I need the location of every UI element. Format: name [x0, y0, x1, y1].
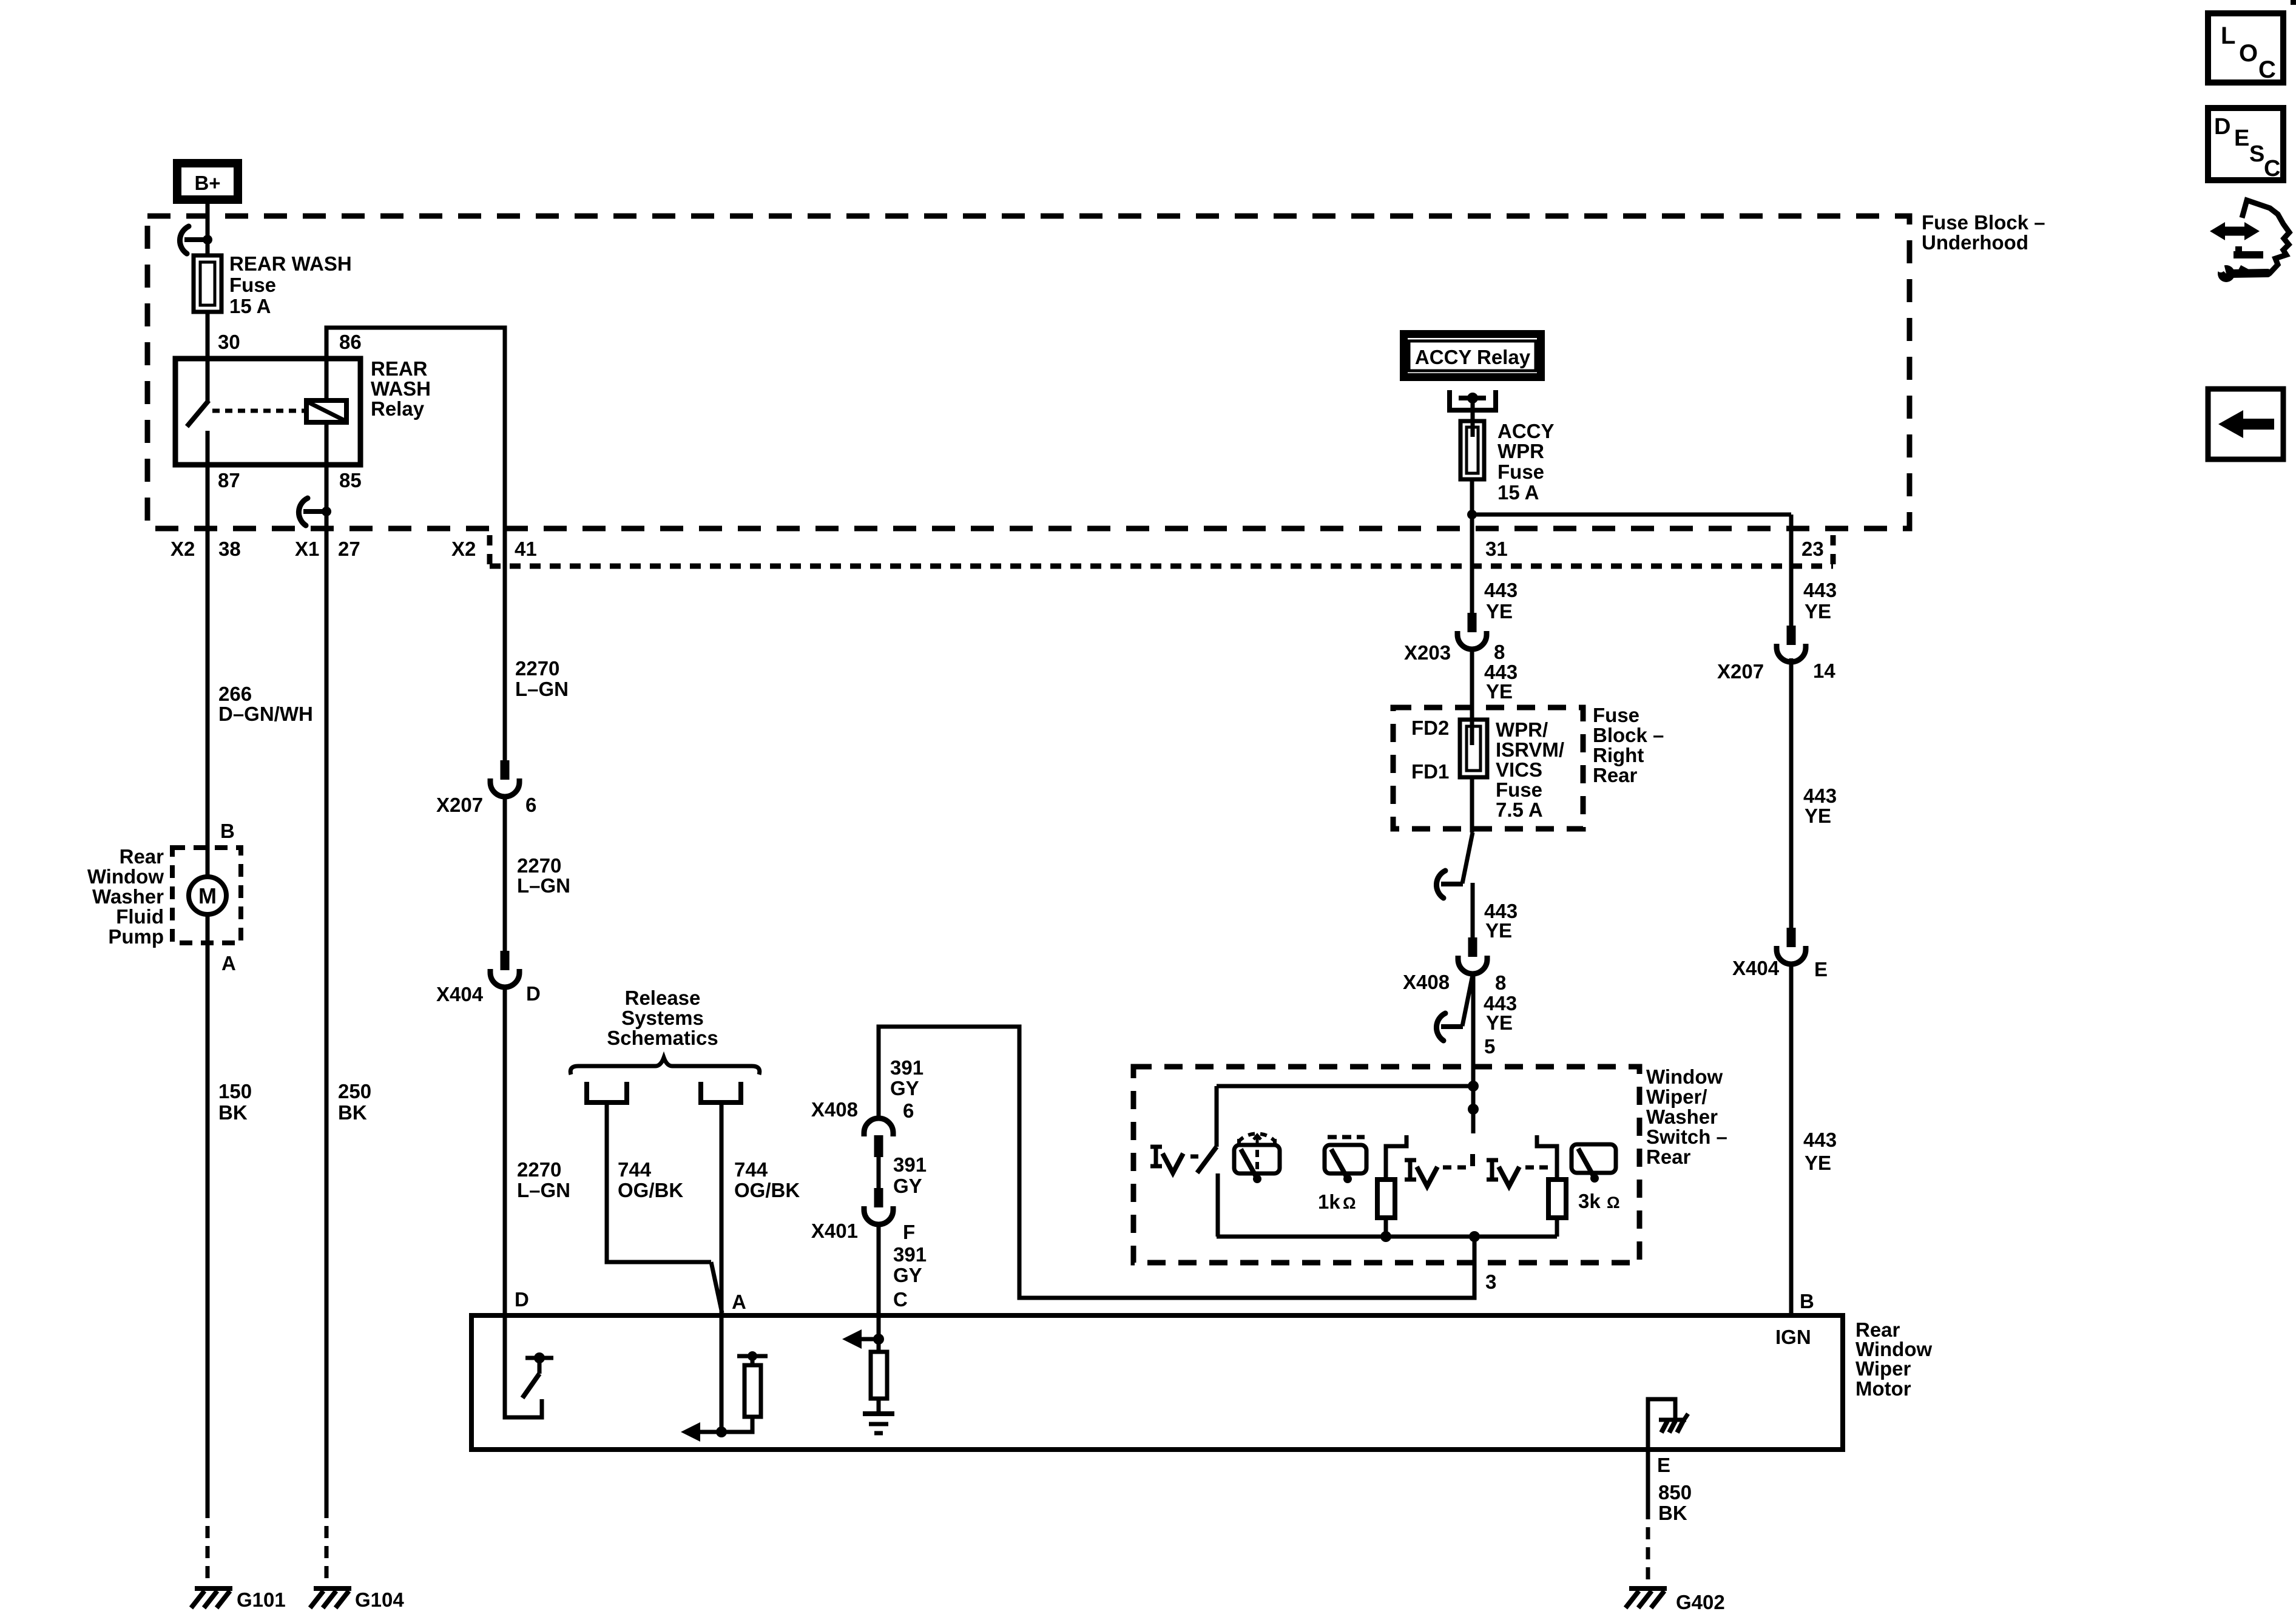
relay fixed contact to pin 87	[206, 431, 210, 465]
svg-text:2270: 2270	[515, 657, 559, 680]
svg-text:Wiper: Wiper	[1855, 1357, 1911, 1380]
svg-text:B: B	[1800, 1290, 1814, 1312]
washer icon intermittent	[1325, 1145, 1366, 1173]
spray dome dashes	[1238, 1133, 1275, 1142]
svg-text:D: D	[515, 1288, 529, 1311]
wire junction to right branch	[1472, 513, 1791, 517]
ground G101	[195, 1586, 232, 1591]
washer icon with spray dome	[1234, 1145, 1280, 1173]
switch bottom rail	[1217, 1235, 1557, 1239]
motor internal chassis ground	[1659, 1418, 1686, 1422]
motor winding A lead	[720, 1315, 724, 1432]
power terminal B+ box	[173, 159, 242, 204]
off switch fixed contact	[1216, 1173, 1220, 1237]
svg-text:6: 6	[525, 794, 536, 816]
switch common stub	[1471, 1086, 1476, 1133]
svg-text:Fuse: Fuse	[229, 274, 276, 296]
svg-text:X404: X404	[436, 983, 484, 1005]
svg-text:Schematics: Schematics	[607, 1027, 718, 1049]
clip below FD1	[1462, 832, 1473, 883]
dash to off blade	[1190, 1155, 1198, 1159]
wire B+ down to fuse	[206, 204, 210, 255]
svg-text:GY: GY	[890, 1077, 919, 1099]
svg-text:443: 443	[1803, 1129, 1837, 1151]
svg-text:850: 850	[1658, 1481, 1692, 1504]
dashed wire to G402	[1646, 1507, 1650, 1585]
svg-text:8: 8	[1494, 641, 1505, 663]
resistor 3k ohm lead	[1537, 1135, 1557, 1180]
relay coil box with diagonal	[306, 400, 346, 422]
svg-text:Right: Right	[1593, 744, 1644, 766]
svg-text:Block –: Block –	[1593, 724, 1664, 746]
junction dot 1k to rail	[1380, 1231, 1391, 1242]
svg-text:744: 744	[618, 1158, 652, 1181]
lever icon off position	[1150, 1145, 1162, 1149]
wire X207-6 to X404-D	[503, 795, 507, 951]
resistor at C	[871, 1352, 887, 1399]
svg-text:15 A: 15 A	[229, 295, 271, 317]
svg-text:C: C	[893, 1288, 908, 1311]
svg-text:Ω: Ω	[1607, 1193, 1620, 1212]
back arrow icon box	[2208, 389, 2283, 459]
svg-text:23: 23	[1801, 538, 1824, 560]
clip hook at relay pin 85	[303, 509, 326, 514]
off switch drop wire	[1215, 1086, 1219, 1147]
svg-text:IGN: IGN	[1775, 1326, 1811, 1348]
resistor 1k ohm	[1377, 1180, 1395, 1218]
intermittent dashes above	[1328, 1135, 1365, 1139]
svg-text:BK: BK	[338, 1101, 367, 1124]
motor arrow at C	[860, 1337, 879, 1342]
window wiper washer switch dashed box	[1133, 1067, 1639, 1263]
connector X404 pin D	[501, 951, 510, 970]
svg-text:15 A: 15 A	[1497, 481, 1539, 504]
svg-text:M: M	[198, 883, 217, 908]
junction dot on wire 85	[322, 507, 331, 516]
svg-text:Pump: Pump	[108, 925, 164, 948]
svg-text:YE: YE	[1486, 1011, 1513, 1034]
svg-text:5: 5	[1484, 1035, 1495, 1058]
wire motor E to ground	[1646, 1450, 1650, 1507]
svg-text:REAR WASH: REAR WASH	[229, 252, 352, 275]
svg-text:X1: X1	[295, 538, 319, 560]
clip below X408-8	[1462, 975, 1473, 1026]
svg-text:Rear: Rear	[1593, 764, 1638, 786]
svg-text:X408: X408	[811, 1098, 858, 1121]
svg-text:O: O	[2239, 40, 2258, 67]
svg-text:G101: G101	[237, 1588, 286, 1611]
junction dot on rail	[1468, 1081, 1479, 1092]
svg-text:391: 391	[890, 1056, 923, 1079]
park switch contact from D	[505, 1315, 542, 1417]
relay actuation dashed line	[212, 409, 305, 413]
svg-text:266: 266	[218, 683, 252, 705]
svg-text:S: S	[2249, 141, 2264, 167]
svg-text:Fuse: Fuse	[1593, 704, 1639, 726]
svg-text:B: B	[220, 820, 235, 842]
park switch pivot bar	[525, 1356, 553, 1360]
resistor 3k ohm	[1548, 1180, 1566, 1218]
svg-text:8: 8	[1495, 971, 1506, 994]
wire from switch pin 3 loop to X408-6	[879, 1027, 1474, 1298]
svg-text:443: 443	[1484, 579, 1518, 601]
wire X408-6 to X401-F	[877, 1157, 881, 1190]
wire fuse to relay pin 30	[206, 312, 210, 359]
svg-text:Ω: Ω	[1343, 1194, 1356, 1212]
rear window washer fluid pump dashed box	[172, 848, 241, 943]
rear window wiper motor box	[471, 1315, 1843, 1450]
svg-text:38: 38	[218, 538, 241, 560]
svg-text:BK: BK	[1658, 1502, 1687, 1524]
wire relay 85 down (circuit 250)	[325, 465, 329, 1506]
svg-text:86: 86	[339, 331, 362, 353]
dotted vertical at pin 23	[1831, 535, 1836, 566]
svg-text:Underhood: Underhood	[1922, 231, 2028, 254]
svg-text:Fuse Block –: Fuse Block –	[1922, 211, 2045, 234]
fuse block right rear dashed box	[1393, 707, 1583, 829]
wire right branch down to X207-14	[1789, 515, 1794, 628]
svg-text:ACCY: ACCY	[1497, 420, 1555, 442]
connector X207 pin 6	[501, 760, 510, 780]
svg-text:VICS: VICS	[1496, 758, 1542, 781]
washer pump motor M	[189, 877, 226, 914]
svg-text:87: 87	[218, 469, 240, 491]
dotted vertical at X2-41	[487, 535, 493, 566]
svg-text:L–GN: L–GN	[515, 678, 569, 700]
resistor 1k ohm lead	[1386, 1135, 1406, 1180]
lever icon high position	[1487, 1158, 1498, 1163]
svg-text:YE: YE	[1486, 680, 1513, 703]
clip hook at B+ junction	[184, 237, 208, 242]
relay switch blade (open)	[187, 400, 209, 427]
wire X404-D to motor terminal D	[503, 986, 507, 1315]
svg-text:A: A	[732, 1291, 746, 1313]
svg-text:YE: YE	[1805, 1152, 1831, 1174]
svg-text:14: 14	[1813, 660, 1835, 682]
relay coil leads 86/85	[325, 359, 329, 400]
svg-text:443: 443	[1803, 785, 1837, 807]
svg-text:7.5 A: 7.5 A	[1496, 798, 1543, 821]
svg-text:YE: YE	[1805, 600, 1831, 623]
svg-text:B+: B+	[194, 172, 220, 194]
connector X404 pin E	[1787, 928, 1796, 947]
svg-text:150: 150	[218, 1080, 252, 1102]
svg-text:41: 41	[515, 538, 537, 560]
svg-text:REAR: REAR	[371, 357, 428, 380]
svg-text:Fuse: Fuse	[1496, 778, 1542, 801]
svg-text:443: 443	[1803, 579, 1837, 601]
fuse WPR/ISRVM/VICS 7.5A	[1460, 720, 1487, 777]
wire X408-8 to switch pin 5	[1471, 973, 1476, 1133]
svg-text:D: D	[526, 982, 541, 1005]
brace under Release Systems label	[570, 1058, 760, 1075]
park switch blade	[522, 1374, 539, 1398]
dashes low lever to common	[1443, 1166, 1451, 1170]
svg-text:391: 391	[893, 1153, 927, 1176]
svg-text:391: 391	[893, 1243, 927, 1266]
wire X401-F to motor terminal C	[877, 1223, 881, 1315]
svg-text:2270: 2270	[517, 1158, 561, 1181]
LOC icon box	[2208, 13, 2283, 83]
ground G104	[314, 1586, 351, 1591]
wire 744 left branch	[607, 1105, 711, 1262]
svg-text:Switch –: Switch –	[1646, 1126, 1727, 1148]
svg-text:YE: YE	[1805, 805, 1831, 827]
svg-text:Wiper/: Wiper/	[1646, 1085, 1707, 1108]
connector X401 pin F	[874, 1188, 883, 1207]
wrench icon	[2232, 273, 2267, 274]
wire FD fuse down	[1470, 777, 1474, 832]
junction dot below rail	[1468, 1104, 1479, 1115]
svg-text:C: C	[2264, 156, 2280, 181]
wire pump to ground (circuit 150 BK)	[206, 914, 210, 1506]
terminal to release systems (left)	[587, 1082, 627, 1102]
DESC icon box	[2208, 108, 2283, 180]
lever icon low position	[1405, 1158, 1416, 1163]
svg-text:GY: GY	[893, 1264, 922, 1286]
terminal to release systems (right)	[701, 1082, 741, 1102]
svg-text:L: L	[2221, 22, 2235, 49]
svg-text:GY: GY	[893, 1175, 922, 1197]
svg-text:85: 85	[339, 469, 362, 491]
motor C lead	[877, 1315, 881, 1352]
svg-text:Release: Release	[625, 987, 701, 1009]
fuse REAR WASH 15A	[194, 255, 221, 312]
svg-text:YE: YE	[1486, 600, 1513, 623]
svg-text:Rear: Rear	[120, 845, 164, 868]
motor arrow at A	[699, 1430, 721, 1434]
svg-text:X207: X207	[436, 794, 483, 816]
svg-text:YE: YE	[1485, 919, 1512, 942]
svg-text:Systems: Systems	[621, 1007, 704, 1029]
svg-text:G104: G104	[355, 1588, 404, 1611]
page corner mark	[2291, 0, 2296, 5]
svg-text:27: 27	[338, 538, 360, 560]
dashes high lever to 3k stub	[1525, 1166, 1534, 1170]
svg-text:ISRVM/: ISRVM/	[1496, 738, 1564, 761]
svg-text:FD2: FD2	[1411, 717, 1449, 739]
svg-text:31: 31	[1485, 538, 1508, 560]
junction dot switch output	[1469, 1231, 1480, 1242]
ACCY relay output bracket	[1450, 390, 1496, 410]
diagonal merge into terminal A	[711, 1262, 722, 1313]
svg-text:X207: X207	[1717, 660, 1764, 683]
svg-text:G402: G402	[1676, 1591, 1725, 1613]
fuse block underhood dashed box	[147, 216, 1909, 528]
svg-text:A: A	[221, 952, 236, 974]
svg-text:E: E	[1657, 1454, 1670, 1476]
ground G402	[1629, 1586, 1667, 1591]
connector X207 pin 14	[1787, 626, 1796, 645]
svg-text:E: E	[1814, 958, 1828, 981]
wire relay 86 up and over to X2-41	[326, 328, 505, 763]
adjust hand icon bar	[2234, 251, 2263, 258]
svg-text:OG/BK: OG/BK	[618, 1179, 683, 1201]
svg-text:WPR/: WPR/	[1496, 718, 1548, 741]
svg-text:3k: 3k	[1578, 1190, 1601, 1212]
dashed stub end	[1470, 1154, 1475, 1166]
svg-text:X2: X2	[171, 538, 195, 560]
motor internal ground bracket	[1648, 1399, 1675, 1447]
svg-text:BK: BK	[218, 1101, 248, 1124]
svg-text:744: 744	[734, 1158, 768, 1181]
connector X408 pin 6 (dome)	[864, 1118, 893, 1136]
svg-text:Fluid: Fluid	[116, 905, 164, 928]
svg-text:E: E	[2234, 126, 2249, 151]
svg-text:1k: 1k	[1318, 1190, 1340, 1213]
svg-text:X2: X2	[451, 538, 476, 560]
relay contact: pin30 lead	[206, 359, 210, 402]
wire 744 right branch to motor A	[720, 1105, 724, 1315]
svg-text:C: C	[2258, 56, 2276, 83]
svg-text:WASH: WASH	[371, 377, 431, 400]
switch top rail	[1217, 1084, 1473, 1089]
wire X404-E to motor terminal B	[1789, 963, 1794, 1315]
svg-text:X408: X408	[1403, 971, 1450, 993]
svg-text:L–GN: L–GN	[517, 874, 570, 897]
adjust hand icon outline	[2240, 200, 2289, 273]
earth ground inside motor	[863, 1411, 894, 1416]
svg-text:OG/BK: OG/BK	[734, 1179, 800, 1201]
relay REAR WASH box	[175, 359, 360, 465]
wire X207-14 to X404-E	[1789, 658, 1794, 930]
svg-text:D–GN/WH: D–GN/WH	[218, 703, 313, 725]
svg-text:X401: X401	[811, 1220, 858, 1242]
svg-text:Washer: Washer	[92, 885, 164, 908]
dashed wire to G101	[206, 1506, 210, 1585]
svg-text:Motor: Motor	[1855, 1377, 1911, 1400]
svg-text:Relay: Relay	[371, 397, 425, 420]
connector X2 dotted line	[490, 564, 1833, 569]
connector X408 pin 8	[1468, 937, 1477, 957]
svg-text:L–GN: L–GN	[517, 1179, 570, 1201]
svg-text:WPR: WPR	[1497, 440, 1544, 462]
svg-text:FD1: FD1	[1411, 760, 1449, 783]
svg-text:ACCY Relay: ACCY Relay	[1415, 346, 1531, 368]
svg-text:X404: X404	[1732, 957, 1780, 979]
washer icon high	[1572, 1144, 1616, 1173]
svg-text:6: 6	[903, 1099, 914, 1122]
dashed wire to G104	[325, 1506, 329, 1585]
adjust hand icon double arrow	[2223, 227, 2246, 236]
resistor at A	[751, 1356, 755, 1365]
svg-text:Washer: Washer	[1646, 1106, 1718, 1128]
svg-text:F: F	[903, 1221, 915, 1243]
svg-text:Window: Window	[1646, 1065, 1723, 1088]
wire X203-8 to fuse FD	[1470, 648, 1474, 745]
switch output pin 3 wire	[1473, 1237, 1477, 1265]
svg-text:30: 30	[218, 331, 240, 353]
resistor at A top bar	[737, 1354, 768, 1359]
junction dot under ACCY fuse	[1467, 510, 1477, 519]
svg-text:Rear: Rear	[1646, 1146, 1691, 1168]
svg-text:X203: X203	[1404, 641, 1451, 664]
svg-text:Window: Window	[87, 865, 164, 888]
svg-text:3: 3	[1485, 1271, 1496, 1293]
wire fuse to junction	[1470, 479, 1474, 615]
connector X203 pin 8	[1468, 613, 1477, 632]
ACCY Relay nameplate	[1400, 330, 1545, 381]
junction dot below B+	[203, 235, 212, 245]
fuse ACCY WPR 15A	[1460, 421, 1484, 479]
spray jet dashed line	[1255, 1150, 1259, 1171]
wire relay 87 down (circuit 150)	[206, 465, 210, 877]
svg-text:D: D	[2214, 114, 2230, 140]
park switch stub	[538, 1358, 542, 1374]
off switch blade	[1197, 1147, 1217, 1173]
svg-text:Fuse: Fuse	[1497, 461, 1544, 483]
svg-text:250: 250	[338, 1080, 371, 1102]
svg-text:2270: 2270	[517, 854, 561, 877]
